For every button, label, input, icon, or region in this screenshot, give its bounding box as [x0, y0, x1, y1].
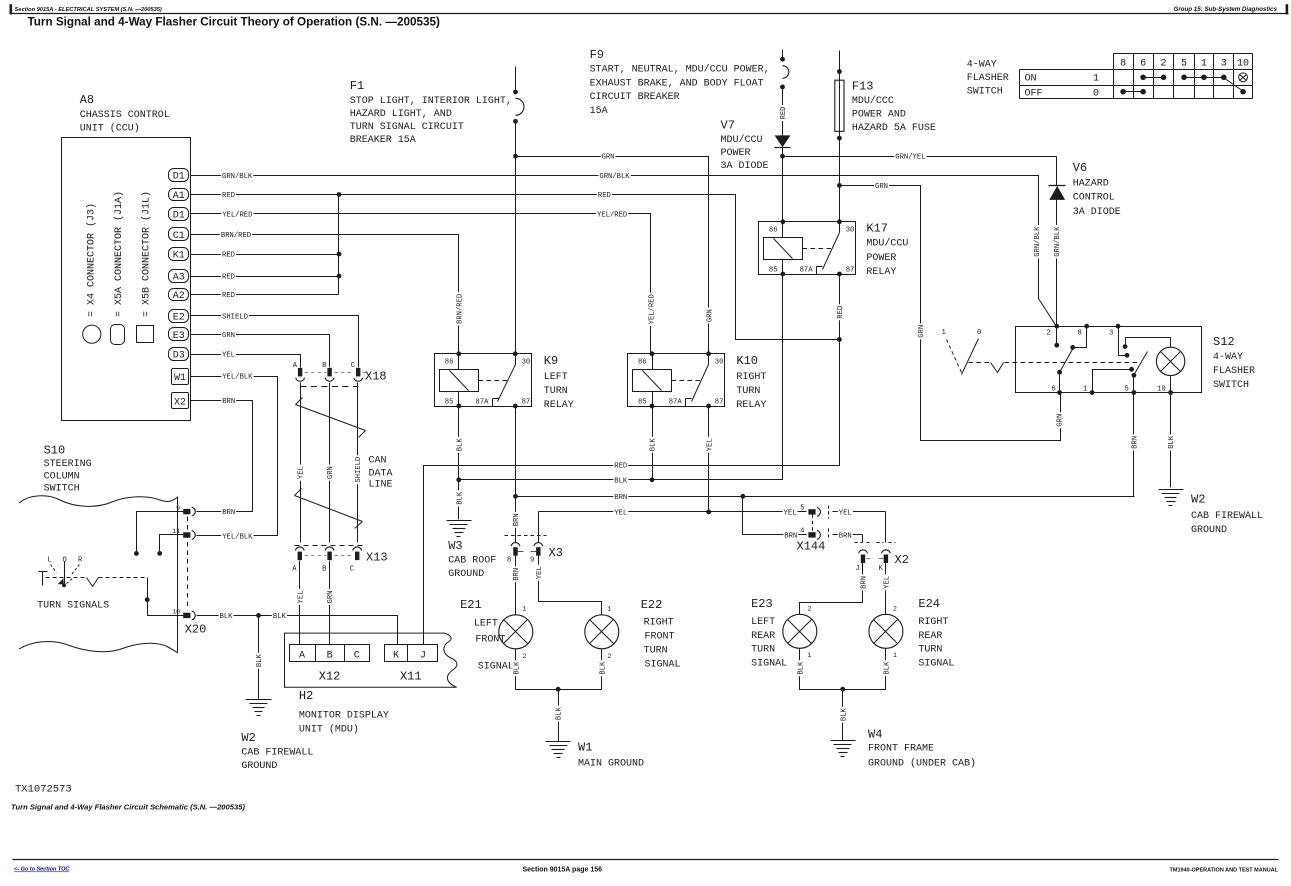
table ON lamp symbol	[1239, 73, 1248, 82]
svg-text:BLK: BLK	[840, 708, 848, 722]
steering column switch S10 outline	[19, 496, 178, 507]
svg-text:Group 15: Sub-System Diagnosti: Group 15: Sub-System Diagnostics	[1174, 6, 1278, 13]
svg-text:1: 1	[1083, 386, 1087, 394]
svg-text:UNIT (MDU): UNIT (MDU)	[299, 724, 359, 736]
svg-text:YEL/RED: YEL/RED	[222, 211, 252, 219]
svg-text:8: 8	[507, 557, 511, 565]
svg-text:MDU/CCU: MDU/CCU	[866, 238, 908, 250]
svg-text:X144: X144	[797, 540, 826, 554]
svg-text:A: A	[292, 566, 297, 574]
wire YEL: X3 pin 9 to E22	[539, 556, 602, 615]
chassis control unit A8 box	[62, 138, 191, 421]
svg-text:X18: X18	[365, 370, 387, 384]
S10 internal wire pin 10	[148, 578, 184, 616]
svg-text:2: 2	[608, 653, 612, 660]
svg-text:W1: W1	[578, 741, 592, 755]
svg-text:ON: ON	[1025, 74, 1037, 85]
svg-text:CAN: CAN	[369, 456, 387, 467]
svg-text:POWER: POWER	[721, 148, 751, 159]
diode V6 (pointing up)	[1056, 157, 1058, 186]
svg-text:Turn Signal and 4-Way Flasher: Turn Signal and 4-Way Flasher Circuit Sc…	[11, 803, 245, 812]
svg-text:10: 10	[1157, 386, 1166, 394]
wire BLK: K10 pin 85 to BLK bus	[652, 407, 654, 480]
svg-text:RED: RED	[222, 274, 235, 282]
wire YEL CAN: X18-A to X13-A	[300, 383, 302, 543]
svg-text:FLASHER: FLASHER	[1213, 366, 1255, 377]
wire YEL: CCU D3 to X18 pin A	[191, 355, 301, 368]
wire BRN branch to X144 pin 4	[743, 497, 807, 535]
svg-text:= X4 CONNECTOR (J3): = X4 CONNECTOR (J3)	[85, 203, 97, 317]
wire SHIELD: CCU E2 to X18 pin C	[191, 316, 359, 368]
CCU pin A3	[169, 270, 189, 283]
svg-text:6: 6	[1140, 58, 1146, 69]
wire GRN: X13-B to MDU X12-B	[329, 561, 331, 645]
svg-text:MDU/CCC: MDU/CCC	[852, 95, 894, 107]
svg-text:OFF: OFF	[1025, 88, 1043, 99]
svg-text:GROUND (UNDER CAB): GROUND (UNDER CAB)	[868, 758, 976, 770]
S12 pin 1 contact	[1093, 370, 1132, 393]
wire BLK: K9 pin 85 to W3 ground	[458, 407, 460, 520]
svg-text:TURN: TURN	[644, 646, 668, 657]
svg-text:YEL: YEL	[298, 466, 306, 479]
svg-text:BLK: BLK	[456, 491, 464, 505]
svg-text:SIGNAL: SIGNAL	[918, 659, 954, 670]
svg-text:4-WAY: 4-WAY	[1213, 352, 1243, 363]
ground W2 (cab firewall, right)	[1159, 489, 1184, 491]
svg-text:CONTROL: CONTROL	[1073, 193, 1115, 204]
ground W4 (front frame)	[831, 740, 856, 742]
svg-text:85: 85	[638, 398, 647, 406]
svg-text:CHASSIS CONTROL: CHASSIS CONTROL	[80, 110, 170, 121]
table OFF row contacts	[1120, 89, 1126, 95]
svg-text:BLK: BLK	[256, 654, 264, 668]
svg-text:W4: W4	[868, 728, 882, 742]
svg-text:GRN/BLK: GRN/BLK	[1054, 226, 1062, 257]
S12 lamp	[1156, 347, 1184, 375]
svg-text:W2: W2	[241, 731, 255, 745]
svg-text:87A: 87A	[669, 398, 683, 406]
svg-text:BLK: BLK	[556, 706, 564, 720]
svg-text:BLK: BLK	[513, 661, 521, 675]
svg-text:6: 6	[1052, 386, 1056, 394]
svg-text:YEL: YEL	[297, 591, 305, 604]
svg-text:3A DIODE: 3A DIODE	[721, 161, 769, 172]
svg-text:BLK: BLK	[599, 661, 607, 675]
svg-text:BRN: BRN	[614, 494, 627, 502]
svg-text:GRN: GRN	[875, 183, 888, 191]
connector X13 pins A B C	[295, 545, 363, 547]
svg-text:0: 0	[977, 329, 981, 337]
wire BRN bus: K9 pin 87 to S12 pin 5	[516, 496, 1135, 498]
connector X20 pin 10	[183, 613, 190, 618]
CCU pin A2	[169, 289, 189, 301]
CCU pin D1	[169, 208, 189, 221]
CCU pin A1	[169, 189, 189, 201]
svg-text:TURN: TURN	[544, 386, 568, 397]
svg-text:BLK: BLK	[884, 661, 892, 675]
svg-text:87A: 87A	[476, 398, 490, 406]
wire GRN/YEL: V7 node to V6	[783, 156, 1057, 158]
svg-text:SIGNAL: SIGNAL	[751, 659, 787, 670]
svg-text:BRN/RED: BRN/RED	[221, 232, 251, 240]
svg-text:LEFT: LEFT	[751, 617, 775, 628]
svg-text:X11: X11	[400, 670, 422, 684]
svg-text:H2: H2	[299, 689, 313, 703]
svg-text:BLK: BLK	[614, 477, 628, 485]
svg-text:POWER: POWER	[866, 253, 896, 264]
wire BLK: E23 E24 to W4 ground	[800, 649, 886, 690]
svg-text:BRN: BRN	[513, 568, 521, 581]
relay K17	[759, 222, 856, 275]
svg-text:A1: A1	[173, 191, 185, 202]
S10 internal wire pin 9	[137, 512, 184, 554]
svg-text:YEL/BLK: YEL/BLK	[222, 533, 253, 541]
svg-text:= X5B CONNECTOR (J1L): = X5B CONNECTOR (J1L)	[140, 191, 152, 317]
connector X20 pin 11	[183, 532, 190, 537]
wire YEL: X3 pin 9 drop	[538, 512, 540, 543]
junction F1 to GRN tap	[513, 154, 518, 159]
svg-text:V6: V6	[1073, 161, 1087, 175]
connector X3 pins 8 9	[505, 535, 547, 537]
svg-text:X3: X3	[549, 546, 563, 560]
svg-text:SIGNAL: SIGNAL	[478, 662, 514, 673]
svg-text:X2: X2	[895, 553, 909, 567]
svg-text:10: 10	[1237, 58, 1249, 69]
svg-text:RED: RED	[598, 192, 611, 200]
svg-text:GRN: GRN	[1057, 414, 1065, 427]
svg-text:X12: X12	[319, 670, 341, 684]
CCU pin D3	[169, 348, 189, 361]
diode V7 (pointing down)	[775, 135, 791, 147]
svg-text:BRN: BRN	[861, 576, 869, 589]
S12 bottom edge pins	[1057, 390, 1062, 395]
svg-text:<- Go to Section TOC: <- Go to Section TOC	[14, 867, 70, 873]
wire GRN: F1 to K10 pin 30	[516, 157, 709, 354]
svg-text:SWITCH: SWITCH	[44, 484, 80, 495]
svg-text:GRN: GRN	[706, 309, 714, 322]
svg-text:2: 2	[893, 606, 897, 613]
svg-text:BRN: BRN	[784, 532, 797, 540]
svg-text:Turn Signal and 4-Way Flasher: Turn Signal and 4-Way Flasher Circuit Th…	[28, 16, 440, 29]
svg-text:GRN: GRN	[327, 591, 335, 604]
MDU connector X11 cells	[385, 645, 438, 662]
relay K9	[435, 354, 532, 407]
svg-text:K: K	[393, 651, 399, 662]
svg-text:2: 2	[1160, 58, 1166, 69]
svg-text:L: L	[48, 557, 52, 565]
svg-text:F1: F1	[350, 79, 364, 93]
svg-text:86: 86	[638, 359, 647, 367]
svg-text:Section 9015A page 156: Section 9015A page 156	[523, 867, 603, 874]
svg-text:K1: K1	[173, 251, 185, 262]
junction RED bus A3	[337, 274, 342, 279]
svg-text:RED: RED	[222, 292, 235, 300]
svg-text:GRN: GRN	[327, 466, 335, 479]
svg-text:GROUND: GROUND	[241, 761, 277, 772]
monitor display unit H2 box	[285, 633, 457, 687]
svg-text:YEL/RED: YEL/RED	[649, 294, 657, 324]
svg-text:K10: K10	[736, 354, 758, 368]
connector X144 pin 5	[808, 509, 815, 514]
MDU connector X12 cells	[290, 645, 370, 662]
S10 toggle arm with arrow	[64, 562, 66, 586]
lamp E23 left rear turn signal	[783, 614, 817, 648]
wire YEL/RED net: CCU D1 to K10 pin 86	[191, 214, 651, 354]
svg-text:SHIELD: SHIELD	[222, 313, 248, 321]
ground W1 (main)	[546, 741, 571, 743]
svg-text:E22: E22	[641, 598, 663, 612]
wire YEL bus: X3 pin 9 to X2 pin K	[539, 511, 807, 513]
svg-text:9: 9	[176, 505, 180, 512]
svg-text:MONITOR DISPLAY: MONITOR DISPLAY	[299, 711, 389, 722]
svg-text:BREAKER 15A: BREAKER 15A	[350, 135, 416, 146]
svg-text:BRN: BRN	[1132, 436, 1140, 449]
svg-text:TM1940-OPERATION AND TEST MANU: TM1940-OPERATION AND TEST MANUAL	[1170, 868, 1279, 874]
svg-text:YEL/RED: YEL/RED	[597, 211, 627, 219]
svg-text:B: B	[327, 651, 333, 662]
junction BLK bus at K10-85	[650, 477, 655, 482]
svg-text:15A: 15A	[590, 106, 608, 117]
svg-text:CAB FIREWALL: CAB FIREWALL	[1191, 511, 1263, 522]
svg-text:8: 8	[1120, 58, 1126, 69]
svg-text:V7: V7	[721, 119, 735, 133]
svg-text:REAR: REAR	[751, 631, 775, 642]
wire BLK: to W2 ground (left)	[258, 616, 260, 700]
svg-text:BRN/RED: BRN/RED	[456, 294, 464, 324]
svg-text:FRONT: FRONT	[645, 632, 675, 643]
svg-text:C: C	[350, 566, 355, 574]
svg-text:POWER AND: POWER AND	[852, 110, 906, 121]
wire RED net: CCU A1 to K17 pin 87 node	[191, 195, 840, 340]
svg-text:RIGHT: RIGHT	[736, 372, 766, 383]
svg-text:5: 5	[1125, 386, 1129, 394]
X5B connector symbol (square)	[137, 326, 154, 343]
svg-text:30: 30	[715, 359, 724, 367]
S12 switch arm 1	[1060, 348, 1074, 373]
svg-text:RIGHT: RIGHT	[918, 617, 948, 628]
svg-text:FRONT: FRONT	[475, 635, 505, 646]
svg-text:CAB ROOF: CAB ROOF	[448, 556, 496, 567]
svg-text:TURN SIGNAL CIRCUIT: TURN SIGNAL CIRCUIT	[350, 122, 464, 133]
svg-text:RED: RED	[222, 192, 235, 200]
svg-text:YEL: YEL	[839, 509, 852, 517]
svg-text:RELAY: RELAY	[866, 267, 896, 278]
X4 connector symbol (circle)	[83, 325, 101, 343]
svg-text:1: 1	[1093, 74, 1099, 85]
svg-text:S12: S12	[1213, 335, 1235, 349]
svg-text:SWITCH: SWITCH	[967, 87, 1003, 98]
svg-text:1: 1	[893, 652, 897, 659]
X5A connector symbol (stadium)	[111, 325, 125, 345]
svg-text:HAZARD 5A FUSE: HAZARD 5A FUSE	[852, 123, 936, 134]
svg-text:K: K	[879, 565, 884, 573]
svg-text:MAIN GROUND: MAIN GROUND	[578, 759, 644, 770]
svg-text:0: 0	[1093, 88, 1099, 99]
svg-text:BLK: BLK	[456, 438, 464, 452]
svg-text:D1: D1	[173, 210, 185, 221]
svg-text:E24: E24	[918, 597, 940, 611]
svg-text:LINE: LINE	[369, 480, 393, 491]
svg-text:85: 85	[769, 266, 778, 274]
fuse F13	[839, 51, 841, 222]
ground W2 (cab firewall, left)	[246, 699, 272, 701]
svg-text:8: 8	[1078, 330, 1082, 338]
wire GRN CAN: X18-B to X13-B	[329, 383, 331, 543]
svg-text:E2: E2	[173, 312, 185, 323]
svg-text:STOP LIGHT, INTERIOR LIGHT,: STOP LIGHT, INTERIOR LIGHT,	[350, 96, 512, 107]
svg-text:1: 1	[523, 606, 527, 613]
svg-text:9: 9	[530, 557, 534, 565]
svg-text:30: 30	[522, 359, 531, 367]
svg-text:RELAY: RELAY	[736, 400, 766, 411]
svg-text:D3: D3	[173, 351, 185, 362]
svg-text:C: C	[354, 651, 360, 662]
svg-text:A3: A3	[173, 273, 185, 284]
svg-text:5: 5	[1181, 58, 1187, 69]
wire BLK: E21 E22 to W1 ground	[516, 649, 602, 690]
svg-text:YEL: YEL	[884, 576, 892, 589]
CCU pin C1	[169, 228, 189, 241]
svg-text:= X5A CONNECTOR (J1A): = X5A CONNECTOR (J1A)	[113, 191, 125, 317]
svg-text:E21: E21	[460, 598, 482, 612]
svg-text:2: 2	[808, 606, 812, 613]
svg-text:BLK: BLK	[1168, 435, 1176, 449]
svg-text:TURN: TURN	[751, 645, 775, 656]
wire BLK bus K17-85	[459, 275, 783, 480]
svg-text:YEL: YEL	[784, 509, 797, 517]
junction F13 line GRN tap	[837, 183, 842, 188]
svg-text:LEFT: LEFT	[544, 372, 568, 383]
wire RED A3 row	[191, 276, 339, 278]
svg-text:YEL: YEL	[706, 438, 714, 451]
svg-text:5: 5	[800, 504, 804, 512]
svg-text:A2: A2	[173, 291, 185, 302]
svg-text:4: 4	[800, 527, 804, 535]
svg-text:TURN: TURN	[918, 645, 942, 656]
svg-text:TURN: TURN	[736, 386, 760, 397]
S10 internal wire pin 11	[160, 535, 184, 554]
table ON row contacts	[1140, 75, 1146, 81]
svg-text:BLK: BLK	[797, 661, 805, 675]
S12 pin 8 contact	[1073, 327, 1087, 348]
S12 pin 3 contact	[1119, 327, 1127, 356]
svg-text:MDU/CCU: MDU/CCU	[721, 134, 763, 146]
svg-text:YEL/BLK: YEL/BLK	[222, 374, 253, 382]
svg-text:BLK: BLK	[650, 438, 658, 452]
footer rule	[13, 859, 1279, 861]
svg-text:Section 9015A - ELECTRICAL SYS: Section 9015A - ELECTRICAL SYSTEM (S.N. …	[15, 7, 162, 13]
svg-text:CIRCUIT BREAKER: CIRCUIT BREAKER	[590, 92, 680, 103]
lamp E21 left front signal	[499, 615, 533, 649]
svg-text:X13: X13	[366, 551, 388, 565]
svg-text:BRN: BRN	[513, 513, 521, 526]
X20 dashed link	[187, 517, 189, 611]
CCU pin D1	[169, 169, 189, 182]
svg-text:REAR: REAR	[918, 631, 942, 642]
S12 pin 2	[1056, 327, 1058, 346]
svg-text:FRONT FRAME: FRONT FRAME	[868, 744, 934, 755]
svg-text:B: B	[322, 362, 327, 370]
wire RED vertical bus at CCU right	[338, 195, 340, 295]
svg-text:RED: RED	[614, 463, 627, 471]
lamp E22 right front turn signal	[585, 615, 619, 649]
svg-text:4-WAY: 4-WAY	[967, 60, 997, 71]
connector X2 pin K	[877, 542, 884, 544]
connector X20 pin 9	[183, 509, 190, 514]
ground W3 (cab roof)	[447, 520, 472, 522]
svg-text:GROUND: GROUND	[448, 569, 484, 580]
svg-text:TX1072573: TX1072573	[15, 784, 72, 796]
svg-text:11: 11	[172, 528, 180, 535]
svg-text:RED: RED	[780, 107, 788, 120]
wire BRN: K9 pin 87 down to X3 pin 8	[515, 407, 517, 543]
svg-text:YEL: YEL	[222, 352, 235, 360]
svg-text:3A DIODE: 3A DIODE	[1073, 207, 1121, 218]
svg-text:D1: D1	[173, 172, 185, 183]
svg-text:B: B	[322, 566, 327, 574]
svg-text:3: 3	[1109, 330, 1113, 338]
connector X18 pins A B C	[298, 368, 302, 377]
svg-text:W1: W1	[174, 373, 186, 384]
CCU pin X2	[172, 393, 189, 409]
circuit breaker F1	[515, 67, 517, 93]
svg-text:DATA: DATA	[369, 469, 393, 480]
wire BRN: CCU X2 to X20 pin 9	[191, 401, 253, 512]
svg-text:RED: RED	[837, 306, 845, 319]
svg-text:86: 86	[769, 227, 778, 235]
lamp E24 right rear turn signal	[869, 614, 903, 648]
svg-text:C1: C1	[173, 231, 185, 242]
svg-text:S10: S10	[44, 444, 66, 458]
wire BLK: X20 pin 10 to MDU X11-K	[197, 616, 398, 645]
wire BRN/RED net: CCU C1 to K9 pin 86	[191, 235, 459, 354]
svg-text:X20: X20	[185, 623, 207, 637]
svg-text:BRN: BRN	[222, 398, 235, 406]
relay K10	[628, 354, 725, 407]
CCU pin W1	[172, 369, 189, 385]
svg-text:HAZARD: HAZARD	[1073, 179, 1109, 190]
svg-text:87A: 87A	[800, 266, 814, 274]
svg-text:F13: F13	[852, 80, 874, 94]
svg-text:RELAY: RELAY	[544, 400, 574, 411]
svg-text:SWITCH: SWITCH	[1213, 380, 1249, 391]
S12 toggle symbol	[969, 362, 990, 364]
svg-text:1: 1	[1201, 58, 1207, 69]
CCU pin K1	[169, 248, 189, 261]
S12 switch arm 2	[1134, 352, 1148, 376]
svg-text:E23: E23	[751, 597, 773, 611]
svg-text:R: R	[78, 557, 83, 565]
svg-text:GROUND: GROUND	[1191, 525, 1227, 536]
CCU pin E2	[169, 310, 189, 323]
svg-text:GRN: GRN	[602, 154, 615, 162]
svg-text:RED: RED	[222, 252, 235, 260]
svg-text:RIGHT: RIGHT	[644, 618, 674, 629]
svg-text:J: J	[856, 565, 860, 573]
svg-text:TURN SIGNALS: TURN SIGNALS	[37, 601, 109, 612]
svg-text:BRN: BRN	[839, 532, 852, 540]
svg-text:LEFT: LEFT	[474, 619, 498, 630]
svg-text:UNIT (CCU): UNIT (CCU)	[80, 123, 140, 135]
wire RED bus to MDU X11-J	[424, 275, 840, 645]
circuit breaker F9	[782, 50, 784, 60]
svg-text:2: 2	[523, 653, 527, 660]
svg-text:10: 10	[172, 609, 180, 616]
wire GRN/BLK net: CCU D1 to S12 pin 2	[191, 176, 1057, 327]
junction BLK to W2 ground branch	[256, 613, 261, 618]
wire YEL: X2 pin K to E24	[885, 512, 887, 543]
svg-text:GRN/BLK: GRN/BLK	[1034, 226, 1042, 257]
